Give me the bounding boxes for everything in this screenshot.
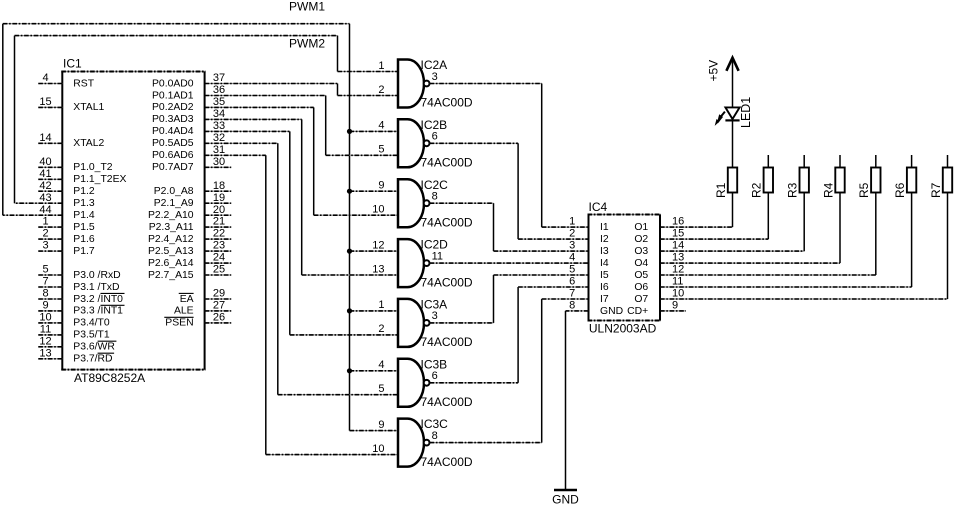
IC1 pin 44 P1.4 [39,204,95,221]
svg-text:RST: RST [73,78,94,89]
svg-text:74AC00D: 74AC00D [421,395,473,409]
IC1 pin 42 P1.2 [38,180,95,197]
svg-text:P0.7AD7: P0.7AD7 [152,162,194,173]
svg-text:R7: R7 [929,182,943,198]
svg-text:EA: EA [180,294,194,305]
wire stub IC1 pin 30 P0.7AD7 [205,166,232,168]
svg-text:74AC00D: 74AC00D [421,156,473,170]
svg-text:41: 41 [39,168,51,180]
svg-text:P2.7_A15: P2.7_A15 [148,270,194,281]
svg-text:1: 1 [378,299,384,311]
IC1 pin 8 P3.2 /INT0 [38,288,124,305]
svg-text:P3.0 /RxD: P3.0 /RxD [73,270,120,281]
wire net P0.1AD1: IC1 pin 36 to IC2B input 5 [205,96,398,156]
svg-text:P3.7/RD: P3.7/RD [73,354,112,365]
svg-text:74AC00D: 74AC00D [421,455,473,469]
IC1 pin 3 P1.7 [38,240,95,257]
svg-text:6: 6 [432,131,438,143]
svg-text:11: 11 [672,275,683,287]
svg-text:10: 10 [372,203,384,215]
svg-text:P0.0AD0: P0.0AD0 [152,78,194,89]
svg-text:ALE: ALE [174,306,194,317]
svg-text:3: 3 [42,240,48,252]
wire net P0.5AD5: IC1 pin 32 to IC3B input 5 [205,143,398,394]
svg-text:R1: R1 [714,182,728,198]
svg-text:P0.3AD3: P0.3AD3 [152,114,194,125]
IC1 pin 18 P2.0_A8 [154,180,231,197]
svg-text:8: 8 [432,191,438,203]
IC1 pin 14 XTAL2 [38,132,104,149]
svg-text:32: 32 [213,132,225,144]
svg-text:4: 4 [569,252,575,264]
svg-text:AT89C8252A: AT89C8252A [74,371,145,385]
IC4 left pin 2 I2 [569,228,609,246]
svg-text:P1.6: P1.6 [73,234,95,245]
NAND gate IC2B 74AC00D [378,118,472,170]
ground symbol GND [552,490,579,506]
IC1 pin 27 ALE [174,300,231,317]
svg-text:26: 26 [213,312,225,324]
svg-text:P3.2 /INT0: P3.2 /INT0 [73,294,123,305]
svg-text:5: 5 [42,264,48,276]
svg-text:34: 34 [213,108,225,120]
IC1 pin 21 P2.3_A11 [149,216,231,233]
svg-text:P1.7: P1.7 [73,246,95,257]
IC4 right pin 14 O3 [634,240,684,258]
wire PWM1 bus tap to IC2B input 4 [350,130,399,132]
svg-text:8: 8 [432,430,438,442]
svg-text:PWM1: PWM1 [289,0,325,14]
wire IC4 output O7 pin 10 to resistor R7 [660,193,948,300]
svg-text:13: 13 [39,347,51,359]
svg-text:10: 10 [372,443,384,455]
svg-text:9: 9 [42,300,48,312]
IC4 right pin 16 O1 [634,216,684,234]
svg-text:74AC00D: 74AC00D [421,215,473,229]
IC4 left pin 4 I4 [569,252,609,270]
svg-text:R4: R4 [821,182,835,198]
IC1 pin 9 P3.3 /INT1 [38,300,124,317]
resistor R5 [857,168,880,199]
IC1 pin 29 EA [179,288,231,305]
NAND gate IC2A 74AC00D [378,58,472,110]
svg-text:36: 36 [213,84,225,96]
wire net P0.2AD2: IC1 pin 35 to IC2C input 10 [205,107,398,215]
svg-text:5: 5 [569,263,575,275]
svg-text:O5: O5 [634,270,648,281]
IC1 pin 2 P1.6 [38,228,95,245]
IC1 pin 31 P0.6AD6 [152,144,225,161]
svg-text:37: 37 [213,72,225,84]
svg-text:P3.4/T0: P3.4/T0 [73,318,110,329]
svg-text:P0.6AD6: P0.6AD6 [152,150,194,161]
svg-text:P1.3: P1.3 [73,198,95,209]
svg-text:15: 15 [672,228,684,240]
svg-text:14: 14 [39,132,51,144]
svg-text:23: 23 [213,240,225,252]
IC1 pin 1 P1.5 [38,216,95,233]
IC4 right pin 10 O7 [634,287,684,305]
wire net P0.0AD0: IC1 pin 37 to IC2A input 2 [205,84,398,96]
svg-text:O7: O7 [634,294,648,305]
svg-text:3: 3 [432,310,438,322]
driver IC4 ULN2003AD body [588,215,662,321]
wire LED1 cathode down to resistor R1 [732,120,734,167]
IC1 pin 20 P2.2_A10 [148,204,231,221]
svg-text:2: 2 [378,84,384,96]
wire stub top of R2 [767,155,769,168]
svg-text:33: 33 [213,120,225,132]
svg-text:27: 27 [213,300,225,312]
IC4 right pin 13 O4 [634,252,684,270]
svg-text:9: 9 [672,299,678,311]
svg-text:3: 3 [432,71,438,83]
svg-text:P2.2_A10: P2.2_A10 [148,210,194,221]
wire IC4 output O5 pin 12 to resistor R5 [660,193,876,276]
+5V power symbol [707,58,739,82]
svg-text:5: 5 [378,383,384,395]
svg-text:XTAL1: XTAL1 [73,102,104,113]
NAND gate IC3A 74AC00D [378,298,472,350]
junction on PWM1 bus at y=251.1 [347,249,352,254]
NAND gate IC2C 74AC00D [372,178,473,230]
svg-text:P1.4: P1.4 [73,210,95,221]
svg-text:I4: I4 [600,258,609,269]
svg-text:R6: R6 [893,182,907,198]
wire PWM1 bus tap to IC3B input 4 [350,370,399,372]
svg-text:CD+: CD+ [627,306,648,317]
svg-text:15: 15 [39,96,51,108]
IC4 right pin 12 O5 [634,263,684,281]
svg-text:29: 29 [213,288,225,300]
IC1 pin 43 P1.3 [39,192,95,209]
svg-text:PSEN: PSEN [165,318,193,329]
svg-text:P0.1AD1: P0.1AD1 [152,90,194,101]
svg-text:2: 2 [42,228,48,240]
LED LED1 [715,97,754,128]
wire IC4 pin 8 GND down to ground symbol [566,311,589,490]
wire net PWM2: IC1 pin 43 P1.3 to NAND gate IC2A input 1 [15,36,399,204]
svg-text:5: 5 [378,144,384,156]
wire IC3B output 6 to IC4 input I6 pin 6 [430,287,589,383]
wire IC3A output 3 to IC4 input I5 pin 5 [430,275,589,323]
wire PWM1 bus tap to IC2C input 9 [350,190,399,192]
svg-text:I3: I3 [600,246,609,257]
svg-text:1: 1 [42,216,48,228]
svg-text:44: 44 [39,204,51,216]
svg-text:8: 8 [569,299,575,311]
wire stub IC4 pin 9 CD+ [660,310,686,312]
svg-text:XTAL2: XTAL2 [73,138,104,149]
svg-text:P2.4_A12: P2.4_A12 [148,234,194,245]
svg-text:I2: I2 [600,234,609,245]
resistor R2 [750,168,773,199]
IC4 right pin 9 CD+ [627,299,678,317]
svg-text:43: 43 [39,192,51,204]
svg-text:22: 22 [213,228,225,240]
svg-text:11: 11 [432,250,443,262]
svg-text:O2: O2 [634,234,648,245]
svg-text:P1.5: P1.5 [73,222,95,233]
svg-text:12: 12 [372,239,384,251]
svg-text:P2.3_A11: P2.3_A11 [149,222,194,233]
svg-text:35: 35 [213,96,225,108]
resistor R6 [893,168,916,199]
svg-text:20: 20 [213,204,225,216]
svg-text:10: 10 [672,287,684,299]
IC4 left pin 3 I3 [569,240,609,258]
svg-text:P3.6/WR: P3.6/WR [73,342,115,353]
svg-text:IC4: IC4 [589,200,608,214]
svg-text:9: 9 [378,419,384,431]
junction on PWM1 bus at y=310.9 [347,308,352,313]
junction on PWM1 bus at y=370.8 [347,368,352,373]
svg-text:4: 4 [378,120,384,132]
wire stub top of R6 [911,155,913,168]
svg-text:1: 1 [569,216,575,228]
IC1 pin 41 P1.1_T2EX [38,168,126,185]
IC1 pin 34 P0.3AD3 [152,108,225,125]
svg-text:4: 4 [378,359,384,371]
microcontroller IC1 AT89C8252A body [61,72,205,370]
svg-text:4: 4 [42,72,48,84]
IC1 pin 32 P0.5AD5 [152,132,225,149]
svg-text:P1.2: P1.2 [73,186,95,197]
svg-text:42: 42 [39,180,51,192]
svg-text:6: 6 [432,370,438,382]
svg-text:74AC00D: 74AC00D [421,335,473,349]
wire IC4 output O2 pin 15 to resistor R2 [660,193,768,240]
wire stub top of R5 [875,155,877,168]
svg-text:P0.5AD5: P0.5AD5 [152,138,194,149]
svg-text:7: 7 [42,276,48,288]
svg-text:74AC00D: 74AC00D [421,96,473,110]
IC1 pin 26 PSEN [164,312,231,329]
svg-text:16: 16 [672,216,684,228]
wire net P0.4AD4: IC1 pin 33 to IC3A input 2 [205,131,398,335]
svg-text:10: 10 [39,312,51,324]
svg-text:O4: O4 [634,258,648,269]
IC1 pin 5 P3.0 /RxD [38,264,120,281]
IC1 pin 25 P2.7_A15 [148,264,231,281]
svg-text:8: 8 [42,288,48,300]
svg-text:I1: I1 [600,222,609,233]
svg-text:LED1: LED1 [739,97,753,128]
IC1 pin 10 P3.4/T0 [38,312,110,329]
IC4 left pin 5 I5 [569,263,609,281]
svg-text:P2.1_A9: P2.1_A9 [154,198,194,209]
IC1 pin 23 P2.5_A13 [148,240,231,257]
IC1 pin 36 P0.1AD1 [152,84,225,101]
svg-text:GND: GND [552,493,579,506]
wire IC4 output O3 pin 14 to resistor R3 [660,193,804,252]
IC1 pin 35 P0.2AD2 [152,96,225,113]
svg-text:12: 12 [672,263,684,275]
wire IC2B output 6 to IC4 input I2 pin 2 [430,143,589,239]
svg-text:30: 30 [213,156,225,168]
resistor R1 [714,168,737,199]
IC1 pin 7 P3.1 /TxD [38,276,119,293]
svg-text:O3: O3 [634,246,648,257]
IC1 pin 11 P3.5/T1 [38,324,110,341]
wire net P0.3AD3: IC1 pin 34 to IC2D input 13 [205,119,398,275]
IC4 left pin 6 I6 [569,275,609,293]
IC4 right pin 11 O6 [634,275,683,293]
svg-text:7: 7 [569,287,575,299]
wire stub top of R7 [947,155,949,168]
junction on PWM1 bus at y=131.4 [347,129,352,134]
wire IC2D output 11 to IC4 input I4 pin 4 [430,262,589,264]
IC1 pin 19 P2.1_A9 [154,192,231,209]
wire stub top of R3 [803,155,805,168]
wire net P0.6AD6: IC1 pin 31 to IC3C input 10 [205,155,398,454]
IC4 left pin 1 I1 [569,216,609,234]
svg-text:P0.2AD2: P0.2AD2 [152,102,194,113]
wire PWM1 bus tap to IC3A input 1 [350,310,399,312]
NAND gate IC2D 74AC00D [372,238,473,290]
IC1 pin 24 P2.6_A14 [148,252,231,269]
svg-text:PWM2: PWM2 [289,37,325,51]
svg-text:14: 14 [672,240,684,252]
svg-text:O1: O1 [634,222,648,233]
svg-text:40: 40 [39,156,51,168]
wire IC2A output 3 to IC4 input I1 pin 1 [430,84,589,228]
resistor R7 [929,168,952,199]
svg-text:6: 6 [569,275,575,287]
svg-text:P2.6_A14: P2.6_A14 [148,258,194,269]
svg-text:25: 25 [213,264,225,276]
wire IC4 output O6 pin 11 to resistor R6 [660,193,912,288]
junction on PWM1 bus at y=191.2 [347,189,352,194]
svg-text:31: 31 [213,144,225,156]
wire IC3C output 8 to IC4 input I7 pin 7 [430,299,589,443]
svg-text:13: 13 [672,252,684,264]
svg-text:I6: I6 [600,282,609,293]
svg-text:P2.5_A13: P2.5_A13 [148,246,194,257]
wire +5V supply down to LED1 anode [732,59,734,108]
svg-text:19: 19 [213,192,225,204]
svg-text:GND: GND [600,306,623,317]
svg-text:I7: I7 [600,294,609,305]
svg-text:9: 9 [378,180,384,192]
wire net PWM1: IC1 pin 44 P1.4 up over the top and down the bus to gate IC3C input 9 [3,24,398,431]
svg-text:1: 1 [378,60,384,72]
svg-text:P2.0_A8: P2.0_A8 [154,186,194,197]
svg-text:R2: R2 [750,182,764,198]
wire PWM1 bus tap to IC2D input 12 [350,250,399,252]
svg-text:R3: R3 [786,182,800,198]
IC4 left pin 7 I7 [569,287,609,305]
resistor R3 [786,168,809,199]
IC1 pin 33 P0.4AD4 [152,120,225,137]
svg-text:IC1: IC1 [63,57,82,71]
svg-text:P3.3 /INT1: P3.3 /INT1 [73,306,123,317]
svg-text:P0.4AD4: P0.4AD4 [152,126,194,137]
IC4 left pin 8 GND [569,299,623,317]
IC1 pin 4 RST [38,72,94,89]
svg-text:P3.1 /TxD: P3.1 /TxD [73,282,119,293]
svg-text:P1.0_T2: P1.0_T2 [73,162,113,173]
svg-text:24: 24 [213,252,225,264]
svg-text:O6: O6 [634,282,648,293]
NAND gate IC3B 74AC00D [378,357,472,409]
svg-text:13: 13 [372,263,384,275]
svg-text:21: 21 [213,216,225,228]
svg-text:P3.5/T1: P3.5/T1 [73,330,110,341]
IC1 pin 40 P1.0_T2 [38,156,113,173]
IC1 pin 37 P0.0AD0 [152,72,225,89]
NAND gate IC3C 74AC00D [372,417,473,469]
svg-text:R5: R5 [857,182,871,198]
IC1 pin 13 P3.7/RD [38,347,114,364]
svg-text:11: 11 [40,324,51,336]
IC4 right pin 15 O2 [634,228,684,246]
svg-text:P1.1_T2EX: P1.1_T2EX [73,174,126,185]
wire IC4 output O4 pin 13 to resistor R4 [660,193,840,264]
svg-text:18: 18 [213,180,225,192]
IC1 pin 12 P3.6/WR [38,335,116,352]
IC1 pin 30 P0.7AD7 [152,156,225,173]
svg-text:+5V: +5V [707,60,721,82]
svg-text:2: 2 [378,323,384,335]
IC1 pin 15 XTAL1 [38,96,104,113]
wire IC2C output 8 to IC4 input I3 pin 3 [430,203,589,251]
svg-text:I5: I5 [600,270,609,281]
wire IC4 output O1 pin 16 to resistor R1 [660,193,733,228]
wire stub top of R4 [839,155,841,168]
svg-text:2: 2 [569,228,575,240]
resistor R4 [821,168,844,199]
svg-text:ULN2003AD: ULN2003AD [589,322,657,336]
svg-text:12: 12 [39,335,51,347]
IC1 pin 22 P2.4_A12 [148,228,231,245]
svg-text:3: 3 [569,240,575,252]
svg-text:74AC00D: 74AC00D [421,275,473,289]
